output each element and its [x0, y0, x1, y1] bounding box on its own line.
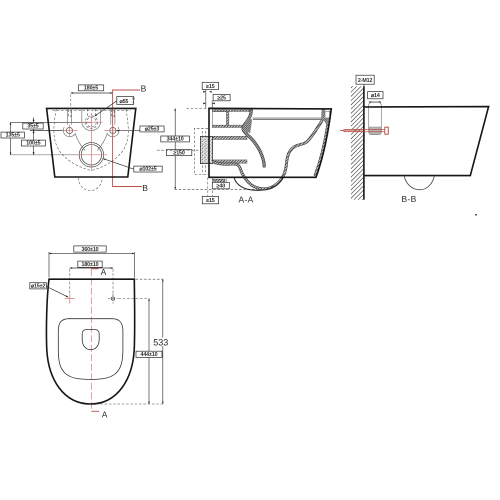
wire: stub at fixing-hole level	[30, 130, 63, 132]
svg-text:⌀102±5: ⌀102±5	[139, 167, 156, 173]
svg-text:≥15: ≥15	[206, 198, 215, 204]
dimension >=15 top	[202, 82, 218, 89]
supply pipe axis dash	[157, 149, 208, 151]
right wall band (hatched)	[315, 111, 330, 176]
dimension 533	[162, 279, 164, 404]
dimension 360±10	[49, 252, 134, 254]
embedded nut	[369, 127, 380, 134]
dimension 2-M12	[356, 75, 374, 84]
toilet section outline	[209, 108, 331, 177]
red crosshair inlet	[81, 121, 103, 123]
svg-text:-1: -1	[132, 101, 135, 105]
inlet slot U	[82, 109, 101, 131]
svg-text:135±5: 135±5	[6, 133, 20, 139]
svg-text:≥150: ≥150	[173, 150, 184, 156]
trapway bulge	[404, 176, 435, 190]
svg-text:533: 533	[153, 337, 168, 347]
svg-text:⌀15±2: ⌀15±2	[31, 284, 46, 290]
right dims	[119, 298, 150, 300]
plan outline	[46, 279, 134, 404]
outlet circle inner	[81, 145, 101, 165]
sump bulge arc	[234, 177, 283, 190]
weir band (hatched, dark edges)	[243, 111, 264, 167]
red crosshair holes	[62, 130, 78, 132]
dimension 100±5	[21, 140, 45, 146]
datum dashed top	[187, 107, 210, 109]
svg-text:444±10: 444±10	[140, 352, 157, 358]
svg-text:2-M12: 2-M12	[358, 78, 373, 84]
dimension >=15 bottom	[202, 196, 218, 203]
flush channel bottom wall	[212, 160, 247, 163]
svg-text:A: A	[102, 410, 108, 420]
svg-text:344±10: 344±10	[167, 137, 184, 143]
wall hatching	[351, 75, 364, 211]
rim tip hatch	[321, 110, 325, 122]
inlet spigot dashed circles	[85, 116, 98, 129]
right fixing hole slot	[110, 109, 112, 125]
rim tip void box	[325, 111, 330, 118]
section line A bottom (red)	[91, 410, 99, 412]
supply pipe hidden lines upper	[201, 131, 203, 175]
dimension 180±10	[70, 267, 113, 269]
wire: left dim reference line top (inlet axis)	[11, 121, 92, 123]
fixing pocket slot	[369, 102, 382, 134]
svg-text:≥15: ≥15	[206, 84, 215, 90]
bowl shell band (hatched, dark edges)	[213, 118, 325, 189]
svg-text:B: B	[142, 183, 148, 193]
svg-text:180±10: 180±10	[81, 262, 98, 268]
dimension >=40	[212, 182, 229, 189]
weir junction wedge	[243, 119, 252, 133]
rim shelf lines	[253, 117, 325, 119]
bolt red	[340, 127, 388, 134]
svg-text:35±5: 35±5	[27, 124, 38, 130]
svg-text:A-A: A-A	[239, 195, 254, 205]
dimension 35±5	[23, 123, 43, 129]
leader dia55	[95, 101, 117, 116]
outlet circle outer	[79, 143, 103, 167]
slot width dim	[369, 101, 381, 103]
rim deck hatched band	[212, 110, 250, 112]
left seat hole cross (red)	[65, 298, 75, 300]
svg-text:⌀14: ⌀14	[371, 93, 380, 99]
sump shape	[82, 330, 99, 350]
svg-text:≥25: ≥25	[217, 95, 226, 101]
svg-text:⌀25±3: ⌀25±3	[145, 127, 160, 133]
inner rim dashed line under top edge	[53, 110, 131, 112]
svg-text:≥40: ≥40	[217, 183, 226, 189]
vertical stub under bowl	[225, 177, 227, 189]
toilet profile B-B	[364, 107, 489, 176]
dimension dia14	[368, 92, 383, 99]
dimension 135±5	[1, 132, 24, 138]
right hidden cavity curve	[91, 109, 128, 171]
dashed bracket	[194, 128, 208, 174]
svg-text:360±10: 360±10	[81, 247, 98, 253]
rim divider hatched	[227, 112, 229, 126]
bolt head red	[385, 127, 389, 134]
datum dashed bottom	[175, 188, 264, 190]
rim bottom hatched band	[212, 125, 243, 127]
rim inner compartment	[213, 112, 227, 126]
left fixing hole slot	[67, 109, 69, 125]
dimension 180±5 top	[71, 92, 113, 94]
red centerline A	[90, 269, 92, 412]
svg-text:B-B: B-B	[402, 194, 417, 204]
inlet spud stippled block	[200, 136, 212, 163]
red crosshair outlet	[76, 154, 107, 156]
leader dia15±2	[46, 286, 68, 297]
red centerline vertical	[90, 113, 92, 171]
svg-text:180±5: 180±5	[84, 86, 98, 92]
svg-text:100±5: 100±5	[26, 141, 40, 147]
stray dot	[475, 214, 477, 216]
wire: 135 dim vertical	[10, 122, 12, 154]
flush channel top wall	[212, 136, 247, 139]
svg-text:B: B	[141, 83, 147, 93]
trapway hidden bulge arc below bottom edge	[78, 178, 102, 191]
dimension >=25	[213, 94, 230, 100]
dim 344±10 vertical	[174, 108, 176, 189]
wire: left dim reference line bottom (outlet axis)	[11, 154, 80, 156]
right seat hole	[111, 297, 114, 300]
left hidden cavity curve	[54, 109, 91, 171]
dimension 444±10	[148, 299, 150, 404]
svg-text:A: A	[101, 267, 107, 277]
wire: 35/100 dim vertical	[33, 117, 35, 155]
seat opening	[58, 319, 123, 380]
dimension >=150	[166, 150, 191, 156]
section line B (red)	[113, 90, 142, 187]
outlet pipe hidden lines bottom	[207, 178, 209, 197]
leader dia102	[103, 159, 134, 170]
toilet rear outline trapezoid	[47, 108, 136, 177]
section line A top (red)	[91, 268, 98, 270]
pipe stub lines top	[205, 90, 207, 109]
fixing boss bottom	[213, 179, 225, 182]
leader dia25	[116, 130, 140, 132]
svg-text:⌀55: ⌀55	[120, 99, 129, 105]
inlet narrow slot dashed	[87, 109, 89, 116]
left fixing hole	[66, 127, 72, 133]
right fixing hole	[110, 127, 116, 133]
wall line	[363, 86, 365, 199]
